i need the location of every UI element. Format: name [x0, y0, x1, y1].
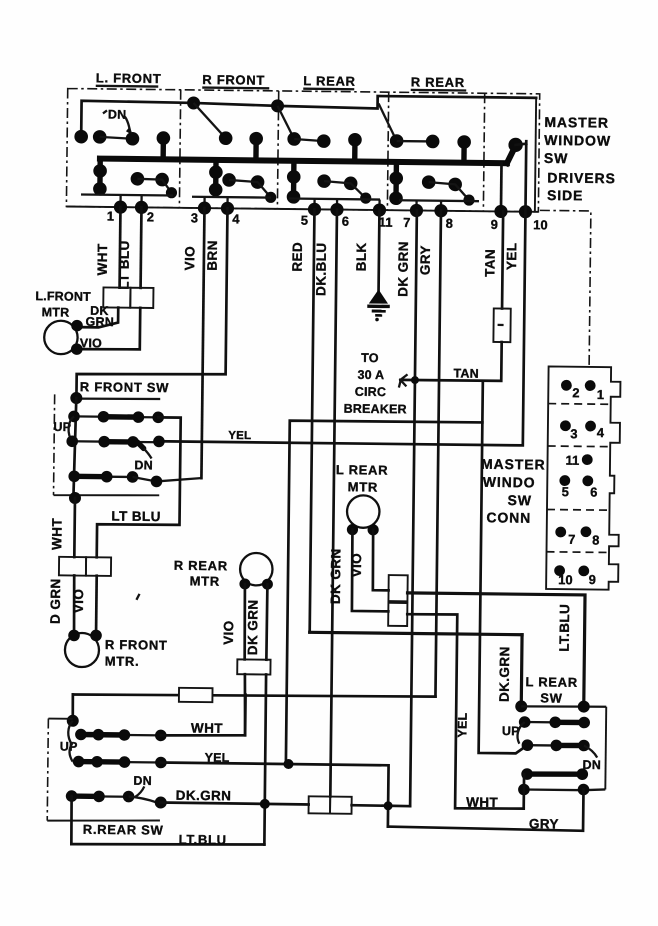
- R REAR MTR terminal dots: [239, 578, 250, 589]
- svg-text:BREAKER: BREAKER: [344, 402, 407, 417]
- pin8 GRY wire down to R.REAR SW feed line: [435, 211, 441, 697]
- VIO lead: [95, 576, 98, 636]
- VIO continuation to WHT row: [244, 674, 246, 735]
- DRIVERS SIDE text: [547, 169, 616, 203]
- VIO lead from L REAR MTR to inline connector: [372, 530, 389, 591]
- svg-text:D GRN: D GRN: [48, 578, 64, 624]
- svg-text:CONN: CONN: [486, 509, 531, 526]
- L REAR feed line (thick) RED to DK GRN drop: [310, 632, 522, 634]
- svg-text:MASTER: MASTER: [481, 456, 546, 473]
- svg-text:LT BLU: LT BLU: [111, 509, 161, 525]
- pin2 LT BLU wire to connector: [139, 207, 143, 287]
- R FRONT SW DN row: [68, 470, 200, 487]
- svg-text:DK.GRN: DK.GRN: [497, 646, 513, 702]
- feed corner down to R REAR SW: [71, 695, 74, 721]
- R.FRONT section contacts: [192, 103, 277, 209]
- pin3 VIO wire down to R FRONT SW DN row: [201, 208, 204, 478]
- svg-text:MTR: MTR: [42, 305, 70, 319]
- junction dot TAN x DK GRN: [411, 376, 419, 384]
- R FRONT MTR motor circle: [65, 633, 99, 667]
- L REAR MTR terminal dots: [347, 524, 358, 535]
- VIO lead down to horizontal inline connector: [244, 584, 245, 660]
- DK GRN continuation to DK.GRN line: [264, 675, 266, 845]
- svg-text:WHT: WHT: [95, 243, 110, 275]
- R REAR SW mid row (YEL): [73, 756, 167, 769]
- L.FRONT MTR motor circle: [44, 321, 78, 355]
- pin7 DK GRN wire down to R.REAR SW DK.GRN line: [410, 210, 417, 806]
- svg-text:3: 3: [191, 210, 198, 225]
- svg-text:BLK: BLK: [354, 242, 369, 271]
- main bus (thick): [100, 159, 507, 164]
- L REAR SW mid row: [522, 739, 590, 752]
- R FRONT SW label + box: [54, 379, 170, 497]
- YEL branch from TAN line down to L REAR SW: [479, 381, 532, 754]
- svg-text:DN: DN: [134, 458, 153, 472]
- box right edge solid: [535, 98, 536, 212]
- connector pin 11: [565, 453, 592, 468]
- svg-text:10: 10: [558, 572, 573, 587]
- svg-text:6: 6: [590, 484, 597, 499]
- svg-text:L REAR: L REAR: [525, 674, 578, 690]
- svg-text:1: 1: [597, 387, 604, 402]
- rail node dot (L REAR): [271, 99, 284, 112]
- L REAR MTR motor circle: [347, 495, 380, 528]
- pin11 BLK wire to ground: [377, 210, 381, 292]
- svg-text:30 A: 30 A: [357, 368, 384, 382]
- pin9 TAN wire down to circuit breaker fuse: [502, 211, 503, 308]
- section separator R REAR/feed: [483, 93, 484, 211]
- fuse / circuit breaker rectangle on TAN: [493, 308, 510, 342]
- DK GRN lead down: [266, 584, 267, 659]
- svg-text:VIO: VIO: [221, 620, 236, 645]
- svg-text:MTR.: MTR.: [105, 653, 140, 668]
- horizontal inline connector R REAR MTR: [237, 659, 270, 674]
- svg-text:L.FRONT: L.FRONT: [35, 289, 91, 304]
- MASTER WINDOW SW text: [544, 114, 611, 167]
- svg-text:DK.BLU: DK.BLU: [313, 242, 329, 296]
- junction dot at GRY/YEL drop: [384, 801, 393, 810]
- label L. FRONT: [96, 70, 162, 86]
- svg-text:YEL: YEL: [228, 430, 251, 442]
- R REAR section contacts: [377, 104, 480, 212]
- pin numbers: [107, 208, 548, 232]
- svg-text:LT.BLU: LT.BLU: [557, 604, 573, 652]
- LT.BLU wire from connector to L REAR SW: [406, 593, 585, 707]
- svg-text:9: 9: [589, 572, 596, 587]
- pin6 DK.BLU wire down to inline connector: [330, 210, 337, 797]
- svg-text:MTR: MTR: [190, 573, 220, 588]
- svg-text:4: 4: [597, 425, 605, 440]
- label R REAR: [411, 74, 467, 90]
- connector pins section 10,9: [554, 565, 596, 587]
- svg-text:TO: TO: [361, 351, 379, 365]
- R FRONT SW common feed node: [70, 392, 82, 404]
- L REAR SW lower thick row: [521, 768, 588, 781]
- svg-text:4: 4: [232, 211, 240, 226]
- connector pins section 3,4: [560, 420, 605, 441]
- master window switch outer box: [66, 89, 539, 212]
- DK GRN lead from L REAR MTR to inline connector: [352, 530, 390, 612]
- svg-text:8: 8: [592, 532, 599, 547]
- pin10 YEL wire down then left (YEL feed line): [159, 137, 526, 445]
- R FRONT SW output bus (to LT BLU): [97, 417, 181, 559]
- svg-text:5: 5: [562, 484, 569, 499]
- section separator R.FRONT/L REAR: [277, 91, 278, 209]
- feed junction dot on YEL row: [283, 759, 293, 769]
- svg-text:WHT: WHT: [466, 795, 498, 810]
- feed branch line to R REAR SW: [286, 420, 482, 766]
- svg-text:DN: DN: [108, 107, 127, 121]
- WHT wire from connector to L REAR SW: [405, 614, 526, 809]
- svg-text:DK GRN: DK GRN: [328, 548, 344, 604]
- thin feed link from node to pin10 wire: [516, 144, 527, 145]
- junction dot DK GRN (motor lead): [260, 799, 270, 809]
- svg-text:VIO: VIO: [80, 336, 102, 350]
- L REAR SW bottom row: [518, 783, 605, 796]
- svg-text:L REAR: L REAR: [336, 462, 389, 478]
- WHT wire down from switch common: [73, 498, 76, 557]
- svg-text:7: 7: [568, 532, 575, 547]
- svg-text:10: 10: [533, 217, 548, 232]
- svg-text:VIO: VIO: [182, 246, 197, 271]
- svg-text:VIO: VIO: [349, 553, 364, 578]
- connector pins section 5,6: [559, 475, 597, 499]
- svg-text:R REAR: R REAR: [174, 558, 228, 574]
- svg-text:GRY: GRY: [418, 245, 433, 275]
- TAN wire from fuse to circuit breaker arrow: [400, 341, 501, 381]
- svg-text:L REAR: L REAR: [303, 73, 356, 89]
- arrow head to circ breaker: [399, 374, 408, 387]
- svg-text:5: 5: [301, 213, 308, 228]
- master window sw connector outline: [546, 366, 621, 589]
- YEL row continuation to DK.GRN drop: [160, 763, 388, 827]
- svg-text:LT.BLU: LT.BLU: [179, 832, 227, 848]
- section separator L REAR/R REAR: [387, 92, 388, 210]
- R REAR SW UP row (WHT): [75, 729, 167, 742]
- connector section dividers (dashed): [548, 403, 610, 406]
- svg-text:SIDE: SIDE: [547, 187, 583, 203]
- svg-text:R.REAR SW: R.REAR SW: [83, 822, 164, 838]
- R FRONT MTR terminal dots: [68, 630, 80, 642]
- left common riser to LT.BLU line: [70, 796, 74, 844]
- VIO lead to L.FRONT MTR: [79, 307, 140, 350]
- DK.GRN line to inline connector and pin7: [161, 803, 309, 805]
- D GRN lead: [74, 576, 75, 636]
- label R FRONT: [202, 72, 269, 88]
- pivot arc: [68, 416, 74, 441]
- rail node dot (R FRONT): [187, 96, 200, 109]
- svg-text:WINDO: WINDO: [483, 474, 536, 491]
- svg-text:RED: RED: [290, 242, 305, 272]
- rotated wire labels under pins: [95, 238, 520, 298]
- pin dots on box bottom: [114, 200, 532, 218]
- svg-text:CIRC: CIRC: [355, 385, 387, 399]
- bus elbow to feed: [507, 146, 516, 164]
- R FRONT SW bottom common dot: [69, 492, 81, 504]
- svg-text:3: 3: [570, 426, 577, 441]
- svg-text:WHT: WHT: [191, 720, 223, 735]
- svg-text:R REAR: R REAR: [411, 74, 465, 90]
- svg-text:9: 9: [491, 217, 498, 232]
- TO 30 A CIRC BREAKER text: [344, 351, 408, 417]
- box bottom solid line (pin row): [66, 207, 538, 212]
- R FRONT SW left common wire: [73, 398, 76, 498]
- svg-text:6: 6: [342, 214, 349, 229]
- fuse rectangle on feed line: [179, 688, 213, 702]
- GRY wire from DN row down and left: [388, 787, 584, 831]
- L REAR section contacts: [276, 106, 381, 210]
- MASTER WINDO SW CONN text: [480, 456, 545, 526]
- pin4 BRN wire down then left: feed to R FRONT SW: [76, 207, 227, 400]
- svg-text:WINDOW: WINDOW: [544, 132, 611, 149]
- section separator L.FRONT/R.FRONT: [179, 90, 180, 208]
- motor terminal dots: [71, 320, 83, 332]
- DK GRN drop to L REAR SW: [520, 635, 524, 707]
- DN output curve to DK.GRN node: [129, 797, 157, 803]
- R FRONT SW middle (YEL) row: [66, 435, 164, 449]
- DN label (L REAR SW) + curve: [584, 746, 598, 758]
- L REAR SW UP row: [519, 716, 590, 729]
- inline connector R FRONT (two cavities): [59, 557, 86, 576]
- svg-text:R FRONT SW: R FRONT SW: [80, 379, 170, 395]
- LT.BLU bottom line: [71, 842, 264, 846]
- L.FRONT section contacts: [74, 107, 178, 208]
- svg-text:SW: SW: [544, 150, 569, 166]
- R REAR SW feed line with fuse: [73, 693, 436, 699]
- connector pins section 2,1: [561, 380, 604, 402]
- top rail (UP contacts rail): [81, 93, 536, 142]
- R REAR SW common node: [67, 715, 79, 727]
- svg-text:2: 2: [572, 385, 579, 400]
- svg-text:11: 11: [565, 453, 579, 468]
- label L REAR: [303, 73, 356, 89]
- pivot arc (R REAR SW): [68, 721, 73, 762]
- ground symbol: [367, 289, 390, 321]
- svg-text:YEL: YEL: [504, 243, 519, 271]
- inline connector L REAR (two cavities stacked): [388, 575, 407, 601]
- svg-text:MASTER: MASTER: [544, 114, 609, 131]
- svg-text:WHT: WHT: [49, 518, 64, 550]
- pivot arc: [517, 722, 524, 744]
- WHT riser to bottom row: [522, 774, 525, 809]
- svg-text:R FRONT: R FRONT: [202, 72, 265, 88]
- DK GRN lead to L.FRONT MTR: [80, 307, 119, 327]
- R FRONT SW UP row: [68, 411, 164, 424]
- WHT wire from R REAR SW to VIO riser: [161, 694, 246, 737]
- pin1 WHT wire to connector: [118, 207, 122, 287]
- svg-text:GRY: GRY: [529, 816, 559, 831]
- svg-text:YEL: YEL: [205, 751, 230, 765]
- svg-text:DK GRN: DK GRN: [395, 241, 411, 297]
- svg-text:DK.GRN: DK.GRN: [176, 788, 232, 804]
- svg-text:GRN: GRN: [86, 315, 115, 329]
- R REAR SW DN row: [66, 790, 135, 803]
- svg-text:L. FRONT: L. FRONT: [96, 70, 162, 86]
- R REAR SW box: [47, 719, 161, 822]
- svg-text:SW: SW: [540, 690, 563, 705]
- inline connector L.FRONT (two cavities): [103, 287, 130, 307]
- pin 9 feed stub from bus: [500, 163, 503, 211]
- pin5 RED wire down to L REAR feed line: [310, 209, 315, 632]
- bus feed node dot: [508, 138, 523, 153]
- svg-text:MTR: MTR: [348, 479, 378, 494]
- connector pins section 7,8: [555, 526, 599, 548]
- stray mark: [136, 594, 139, 600]
- svg-text:TAN: TAN: [453, 366, 479, 380]
- svg-text:BRN: BRN: [205, 240, 220, 271]
- svg-text:TAN: TAN: [482, 249, 497, 277]
- svg-text:DN: DN: [133, 774, 152, 788]
- svg-text:7: 7: [403, 215, 410, 230]
- svg-text:SW: SW: [508, 492, 533, 508]
- svg-text:DK GRN: DK GRN: [245, 599, 261, 655]
- svg-text:DRIVERS: DRIVERS: [547, 169, 616, 186]
- R REAR MTR motor circle: [240, 553, 273, 586]
- svg-text:2: 2: [147, 209, 154, 224]
- svg-text:R FRONT: R FRONT: [105, 637, 168, 653]
- svg-text:8: 8: [446, 216, 453, 231]
- svg-text:YEL: YEL: [455, 712, 469, 737]
- dash-dot leader from switch box to connector: [538, 210, 591, 365]
- svg-text:VIO: VIO: [71, 589, 86, 614]
- DK.GRN output node: [155, 796, 167, 808]
- inline connector on DK.GRN/DK.BLU (two cavities): [309, 796, 331, 813]
- L REAR SW top contact row: [514, 700, 606, 790]
- svg-text:1: 1: [107, 208, 114, 223]
